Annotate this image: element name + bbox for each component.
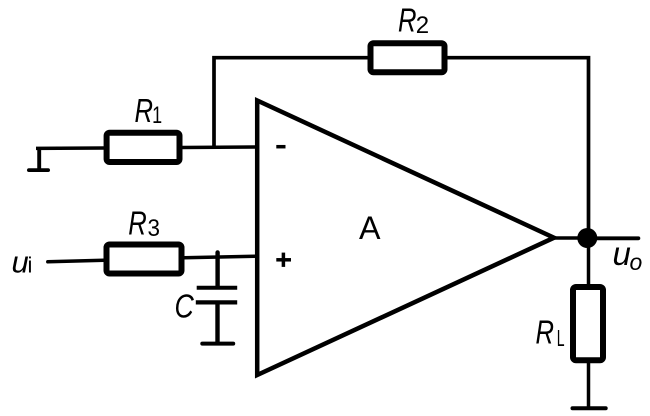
- svg-text:u: u: [613, 235, 631, 272]
- svg-text:3: 3: [148, 215, 161, 242]
- svg-text:2: 2: [416, 12, 429, 39]
- svg-text:R: R: [128, 205, 147, 242]
- svg-text:u: u: [12, 244, 29, 279]
- svg-text:A: A: [359, 210, 381, 246]
- svg-text:R: R: [536, 313, 555, 350]
- svg-text:C: C: [175, 288, 195, 325]
- svg-text:o: o: [630, 249, 643, 275]
- svg-text:i: i: [28, 253, 33, 278]
- svg-text:R: R: [398, 2, 417, 39]
- svg-text:1: 1: [152, 102, 162, 129]
- svg-text:R: R: [135, 92, 154, 129]
- svg-text:L: L: [557, 325, 565, 351]
